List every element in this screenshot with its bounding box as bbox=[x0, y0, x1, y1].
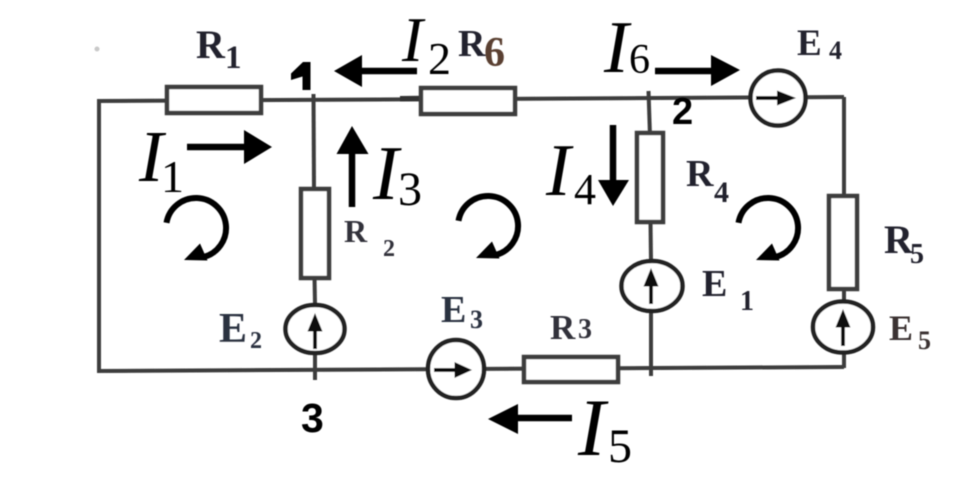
label R4 bbox=[686, 153, 729, 209]
wire E1 to bottom junction tick bbox=[649, 309, 653, 376]
svg-text:2: 2 bbox=[428, 33, 451, 84]
svg-text:I: I bbox=[577, 382, 609, 473]
svg-text:E: E bbox=[702, 263, 727, 305]
current arrow I3 bbox=[337, 126, 369, 207]
node 1 junction tick bbox=[312, 94, 317, 190]
svg-text:R: R bbox=[344, 213, 368, 249]
resistor R1 bbox=[167, 87, 261, 113]
svg-text:R: R bbox=[458, 23, 486, 65]
label I5 bbox=[577, 382, 632, 473]
source E3 bbox=[428, 340, 484, 398]
svg-text:1: 1 bbox=[740, 286, 754, 317]
svg-text:5: 5 bbox=[608, 420, 632, 473]
svg-text:R: R bbox=[196, 22, 226, 67]
svg-text:2: 2 bbox=[250, 328, 262, 354]
svg-text:6: 6 bbox=[629, 37, 650, 83]
source E5 bbox=[813, 302, 873, 353]
wire left bbox=[97, 99, 101, 373]
svg-text:1: 1 bbox=[161, 151, 184, 202]
svg-text:R: R bbox=[686, 153, 714, 195]
svg-text:4: 4 bbox=[829, 36, 842, 65]
wire R2 to E2 bbox=[313, 277, 318, 304]
label E2 bbox=[219, 306, 262, 354]
label I6 bbox=[603, 7, 650, 89]
resistor R2 bbox=[301, 189, 329, 278]
label E3 bbox=[441, 289, 483, 334]
svg-text:3: 3 bbox=[398, 163, 422, 216]
svg-text:E: E bbox=[219, 306, 247, 352]
wire right bbox=[842, 97, 846, 368]
source E1 bbox=[622, 261, 683, 311]
label I4 bbox=[545, 130, 596, 214]
label I3 bbox=[372, 130, 422, 216]
wire top bbox=[99, 97, 844, 101]
label R2 bbox=[344, 213, 395, 262]
svg-text:I: I bbox=[401, 5, 426, 75]
label I1 bbox=[138, 116, 184, 202]
label R1 bbox=[196, 22, 242, 76]
svg-text:4: 4 bbox=[574, 165, 596, 214]
svg-text:1: 1 bbox=[225, 40, 242, 76]
svg-text:4: 4 bbox=[714, 176, 729, 209]
wire stub left of R6 bbox=[400, 96, 422, 102]
svg-text:5: 5 bbox=[910, 239, 924, 270]
svg-text:E: E bbox=[441, 289, 466, 331]
current arrow I1 bbox=[187, 130, 272, 164]
svg-text:2: 2 bbox=[383, 236, 395, 262]
wire R4 to E1 bbox=[649, 221, 654, 261]
svg-text:E: E bbox=[889, 308, 913, 348]
resistor R3 bbox=[524, 357, 618, 382]
source E2 bbox=[286, 305, 345, 353]
svg-text:6: 6 bbox=[484, 30, 505, 76]
svg-text:3: 3 bbox=[470, 305, 483, 334]
label E4 bbox=[797, 23, 842, 65]
label R5 bbox=[884, 217, 924, 270]
resistor R4 bbox=[637, 133, 663, 222]
mesh loop arrow 3 bbox=[739, 198, 799, 261]
svg-text:I: I bbox=[545, 130, 574, 212]
svg-text:3: 3 bbox=[578, 314, 592, 345]
resistor R5 bbox=[829, 196, 857, 289]
svg-text:2: 2 bbox=[672, 91, 693, 133]
svg-text:R: R bbox=[550, 308, 576, 347]
current arrow I2 bbox=[334, 55, 417, 87]
label I2 bbox=[401, 5, 451, 84]
current arrow I6 bbox=[655, 55, 740, 86]
current arrow I5 bbox=[488, 404, 572, 434]
source E4 bbox=[751, 71, 806, 126]
svg-text:E: E bbox=[797, 23, 822, 64]
svg-text:I: I bbox=[603, 7, 632, 89]
current arrow I4 bbox=[598, 125, 629, 206]
label R3 bbox=[550, 308, 592, 347]
node 2 junction tick bbox=[649, 91, 651, 136]
node 1 label bbox=[291, 62, 311, 90]
svg-text:5: 5 bbox=[918, 326, 931, 355]
node 3 junction tick bbox=[313, 352, 317, 380]
label E1 bbox=[702, 263, 754, 317]
resistor R6 bbox=[421, 88, 515, 114]
wire bottom bbox=[97, 367, 844, 371]
mesh loop arrow 2 bbox=[459, 196, 519, 259]
mesh loop arrow 1 bbox=[167, 198, 227, 261]
svg-text:3: 3 bbox=[301, 395, 324, 441]
label E5 bbox=[889, 308, 931, 355]
label R6 bbox=[458, 23, 505, 76]
